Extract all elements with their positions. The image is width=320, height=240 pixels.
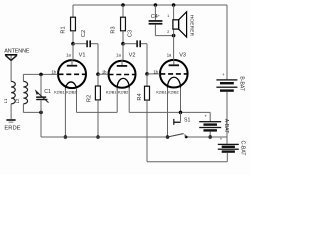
svg-text:C1: C1 [44, 89, 51, 95]
svg-text:ANTENNE: ANTENNE [4, 48, 30, 54]
svg-text:K2/B2: K2/B2 [66, 91, 76, 95]
svg-text:C3: C3 [128, 30, 134, 37]
svg-text:HOERER: HOERER [189, 15, 195, 37]
svg-text:ERDE: ERDE [4, 126, 20, 132]
svg-text:L1: L1 [3, 98, 8, 103]
svg-text:K2/B1: K2/B1 [106, 91, 116, 95]
svg-text:1: 1 [167, 14, 169, 18]
svg-text:L2: L2 [15, 98, 20, 103]
svg-text:K2/B1: K2/B1 [156, 91, 166, 95]
svg-text:K2/B2: K2/B2 [168, 91, 178, 95]
svg-text:+: + [204, 114, 207, 119]
svg-text:A-BAT: A-BAT [223, 119, 229, 134]
svg-text:V2: V2 [129, 52, 136, 58]
svg-text:R2: R2 [87, 95, 93, 102]
svg-text:R3: R3 [110, 26, 116, 33]
svg-text:+: + [220, 136, 223, 141]
svg-text:+: + [222, 72, 225, 77]
svg-text:K2/B1: K2/B1 [54, 91, 64, 95]
svg-text:1a: 1a [167, 53, 172, 58]
svg-text:1a: 1a [66, 53, 71, 58]
svg-text:1a: 1a [116, 53, 121, 58]
svg-text:2: 2 [167, 30, 169, 34]
svg-text:V3: V3 [179, 52, 186, 58]
svg-text:1b: 1b [153, 70, 158, 75]
svg-text:1b: 1b [51, 70, 56, 75]
svg-text:S1: S1 [184, 117, 190, 123]
svg-text:R4: R4 [137, 93, 143, 100]
svg-text:1b: 1b [102, 70, 107, 75]
svg-text:V1: V1 [79, 52, 86, 58]
svg-text:C-BAT: C-BAT [240, 141, 246, 156]
svg-text:C2: C2 [81, 30, 87, 37]
svg-text:K2/B2: K2/B2 [118, 91, 128, 95]
svg-text:R1: R1 [60, 26, 66, 33]
svg-text:B-BAT: B-BAT [239, 76, 245, 91]
